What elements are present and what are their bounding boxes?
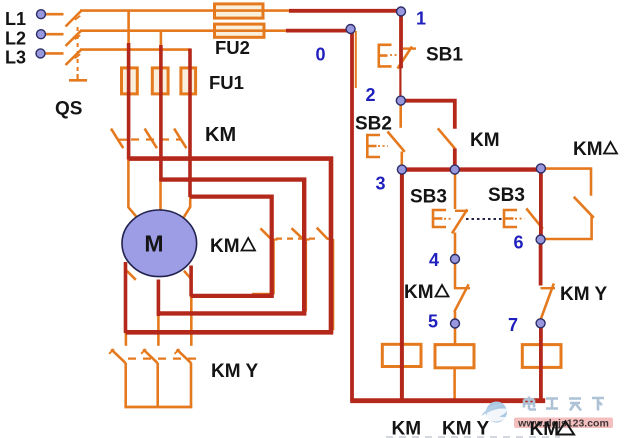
wire node 2 to SB2 (399, 101, 402, 128)
svg-text:FU2: FU2 (215, 37, 250, 58)
switch QS blade 3 tick (75, 54, 80, 58)
label coil KM delta triangle (557, 422, 574, 435)
switch QS blade 3 (66, 50, 82, 65)
contact KM Y interlock seat (541, 287, 556, 289)
wire motor bottom right diagonal (184, 271, 191, 279)
wire L2 stub (45, 33, 64, 36)
contactor KM delta main blade 1 foot (272, 238, 278, 240)
wire phase B upper (160, 31, 163, 46)
wire delta loop middle (158, 180, 304, 314)
wire node 3 bus (401, 167, 541, 171)
svg-text:0: 0 (316, 45, 326, 65)
terminal L2 (37, 30, 46, 39)
contactor KM delta main blade 2 (292, 228, 305, 240)
linkage SB3a-SB3b dotted (466, 218, 504, 220)
node 5 (451, 319, 460, 328)
watermark banner (514, 418, 613, 429)
contactor KM delta main blade 1 (261, 228, 273, 240)
contactor KM delta main blade 3 (317, 228, 328, 240)
svg-text:SB3: SB3 (410, 187, 447, 208)
coil KM delta (522, 345, 561, 368)
label KM delta holding triangle (604, 142, 617, 154)
watermark text dian gong tian xia (524, 397, 604, 411)
node 6 (536, 235, 545, 244)
label KM delta interlock triangle (436, 285, 449, 297)
svg-text:FU1: FU1 (209, 72, 244, 93)
wire L1 stub (45, 13, 64, 16)
switch QS blade 1 (66, 11, 82, 27)
contactor KM delta main blade 3 foot (328, 238, 334, 240)
button SB1 seat (403, 47, 416, 49)
wire delta loop inner (190, 197, 272, 296)
wire phase C to motor (184, 197, 190, 218)
contactor KM Y blade 2 (143, 349, 158, 363)
svg-text:SB3: SB3 (488, 185, 525, 206)
wire KM Y pole 3 lower (190, 363, 193, 407)
contactor KM Y blade 1 tick (109, 349, 114, 354)
contactor KM delta main linkage dashed (276, 238, 316, 240)
contactor KM Y blade 1 (111, 349, 126, 363)
contactor KM Y blade 3 (177, 349, 192, 363)
svg-text:2: 2 (366, 85, 376, 105)
button SB3b blade (526, 208, 543, 228)
wire line 0 bottom (350, 398, 545, 403)
button SB3b head (504, 210, 517, 227)
svg-text:KM: KM (573, 139, 603, 160)
wire node 6 to KM Y interlock (539, 240, 543, 286)
svg-text:KM: KM (470, 130, 500, 151)
label KM delta main triangle (242, 238, 256, 251)
button SB3b dotted link (515, 218, 525, 220)
wire phase B drop (159, 45, 163, 182)
watermark char xia (592, 398, 604, 411)
switch QS linkage stem (76, 74, 78, 80)
contactor KM Y linkage dashed (128, 358, 196, 360)
button SB1 blade (398, 47, 413, 69)
wire motor bottom left drop (124, 262, 128, 333)
contact KM delta holding upper wire (543, 169, 591, 196)
node 7 (536, 319, 545, 328)
contact KM Y interlock blade (540, 283, 554, 321)
button SB1 head (379, 45, 392, 67)
coil KM Y (435, 345, 474, 368)
svg-text:4: 4 (429, 250, 439, 270)
wire KM Y pole 1 lower (124, 363, 127, 407)
wire motor bottom left diagonal (127, 271, 136, 280)
wire KM Y pole 1 top terminal (125, 332, 128, 346)
switch QS blade 1 tick (75, 16, 80, 20)
wire SB1 lower to node 2 (399, 68, 401, 101)
contactor KM main blade 1 foot (119, 139, 130, 141)
wire row L1 (80, 9, 291, 12)
svg-text:L3: L3 (5, 48, 26, 68)
watermark logo swirl (481, 402, 508, 423)
svg-text:M: M (144, 231, 163, 257)
watermark char gong (546, 399, 558, 409)
svg-text:KM: KM (210, 236, 240, 257)
node 3 junction c (536, 164, 545, 173)
wire phase A upper (127, 11, 130, 44)
wire row L3 (80, 48, 191, 51)
button SB3a seat (455, 210, 468, 212)
wire node 0 parallel strand (355, 31, 357, 88)
switch QS handle bar (69, 79, 87, 82)
button SB3a head (433, 210, 446, 227)
svg-text:1: 1 (416, 9, 426, 29)
terminal L3 (36, 49, 45, 58)
fuse FU2 body 1 (215, 4, 264, 18)
node 3 junction b (450, 165, 459, 174)
wire L2 to node 0 and line 0 down (286, 31, 352, 401)
wire bus to node 6 through SB3b (539, 168, 543, 239)
wire KM Y pole 3 top terminal (190, 296, 193, 346)
contact KM delta holding blade (574, 197, 594, 218)
wire L1 to node 1 (289, 11, 401, 68)
switch QS blade 2 (66, 31, 82, 46)
svg-text:KM Y: KM Y (442, 419, 489, 438)
fuse FU2 body 2 (215, 24, 265, 37)
wire motor bottom right drop (189, 266, 193, 297)
wire node3 line to SB3a (454, 170, 457, 210)
contactor KM main blade 3 (174, 129, 186, 149)
wire node 4 to KM delta interlock (454, 259, 457, 287)
coil KM (382, 344, 421, 366)
wire coil KM Y to line 0 (453, 368, 456, 401)
contactor KM Y blade 3 tick (175, 349, 180, 354)
wire phase C drop (188, 49, 192, 198)
faint cut-off watermark row at bottom edge (386, 436, 560, 438)
wire node 2 to KM aux (401, 101, 455, 129)
contactor KM main blade 2 (145, 129, 157, 149)
wire phase B to motor (159, 181, 162, 211)
switch QS linkage dashed (77, 27, 79, 74)
wire delta loop outer (126, 159, 331, 333)
button SB2 blade (388, 132, 405, 152)
svg-text:KM: KM (392, 419, 422, 438)
wire row L2 (80, 29, 288, 32)
svg-text:SB2: SB2 (355, 114, 392, 135)
terminal L1 (37, 10, 46, 19)
svg-text:KM: KM (404, 282, 434, 303)
node 4 (451, 255, 460, 264)
wire KM Y pole 2 lower (156, 363, 159, 407)
button SB2 dotted link (378, 145, 388, 147)
svg-text:L2: L2 (5, 29, 26, 49)
wire node 3 to coil KM (400, 170, 404, 401)
wire KM aux lower (453, 148, 457, 169)
svg-text:SB1: SB1 (426, 45, 463, 66)
svg-text:KM: KM (530, 419, 560, 438)
motor M circle (122, 210, 197, 277)
wire L3 stub (45, 52, 64, 55)
svg-text:QS: QS (55, 99, 82, 120)
wire SB3a to node 4 (454, 233, 457, 260)
contact KM aux blade (438, 128, 455, 148)
wire KM delta pole 2 lower (305, 241, 307, 312)
svg-text:6: 6 (514, 233, 524, 253)
svg-text:KM Y: KM Y (560, 284, 607, 305)
watermark char tian (569, 399, 581, 411)
wire KM delta pole 1 lower (252, 241, 274, 294)
button SB3a dotted link (444, 218, 452, 220)
fuse FU1 body 3 (181, 68, 196, 94)
contactor KM main linkage dashed (131, 138, 181, 140)
contact KM delta holding lower wire (543, 217, 592, 240)
svg-text:7: 7 (508, 315, 518, 335)
svg-text:3: 3 (376, 174, 386, 194)
switch QS blade 2 tick (75, 35, 80, 39)
svg-text:KM Y: KM Y (211, 361, 258, 382)
watermark char dian (524, 397, 536, 410)
wire KM Y pole 2 top terminal (157, 316, 160, 346)
button SB2 head (367, 135, 380, 157)
button SB1 dotted link (390, 54, 399, 56)
wire phase A to motor (128, 158, 136, 217)
svg-text:5: 5 (428, 312, 438, 332)
node 1 (397, 7, 406, 16)
wire motor bottom center drop (157, 280, 161, 317)
contactor KM main blade 1 (111, 129, 123, 149)
wire phase A drop (127, 43, 131, 160)
contact KM delta interlock blade (454, 284, 468, 312)
contact KM delta interlock seat (454, 287, 470, 289)
fuse FU1 body 1 (122, 68, 138, 94)
node 2 (396, 96, 405, 105)
contactor KM Y blade 2 tick (141, 349, 146, 354)
node 3 (397, 165, 406, 174)
contactor KM delta main blade 2 foot (304, 238, 310, 240)
node 0 (346, 25, 355, 34)
wire node 5 to coil KM Y (454, 324, 457, 346)
svg-text:KM: KM (205, 124, 236, 146)
wire KM delta pole 3 lower (332, 239, 334, 330)
wire interlock to node 5 (454, 312, 457, 324)
fuse FU1 body 2 (152, 68, 168, 94)
button SB3a blade (452, 209, 467, 233)
wire SB2 to node 3 (400, 152, 403, 170)
wire interlock to node 7 and coil KM delta (539, 321, 543, 401)
wire star point bar (124, 406, 192, 409)
svg-text:L1: L1 (5, 9, 26, 29)
